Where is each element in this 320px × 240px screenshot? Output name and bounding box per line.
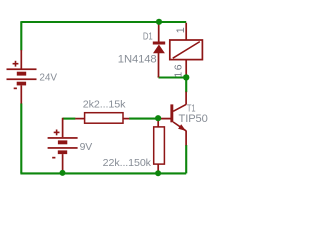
svg-text:1N4148: 1N4148 <box>118 54 157 66</box>
svg-text:22k...150k: 22k...150k <box>103 157 152 169</box>
svg-text:16: 16 <box>173 63 184 78</box>
svg-text:24V: 24V <box>39 72 57 84</box>
svg-text:2k2...15k: 2k2...15k <box>83 99 126 111</box>
svg-text:D1: D1 <box>143 31 153 43</box>
svg-text:1: 1 <box>175 27 187 33</box>
svg-text:9V: 9V <box>80 141 93 153</box>
svg-text:TIP50: TIP50 <box>179 113 208 125</box>
